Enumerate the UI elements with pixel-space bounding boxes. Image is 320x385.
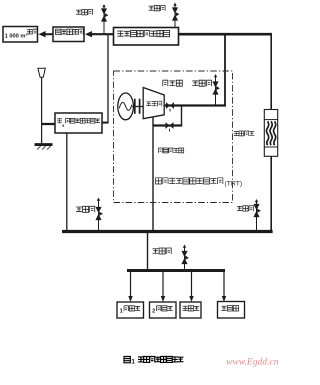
TRT system dashed boundary bbox=[114, 71, 233, 203]
box sintering machine bbox=[218, 302, 245, 319]
flare tip bbox=[38, 68, 45, 77]
svg-text:2: 2 bbox=[152, 309, 155, 315]
safety valve V1 on wire bbox=[103, 6, 105, 34]
safety valve V6 on distribution header bbox=[184, 247, 186, 271]
svg-text:1: 1 bbox=[131, 358, 135, 365]
wire release box down to header bbox=[66, 133, 68, 232]
label anquanfa V1 bbox=[76, 10, 81, 14]
generator G bbox=[118, 93, 134, 120]
wire branch to TRT bbox=[224, 34, 226, 105]
wire arrow into gravity collector bbox=[92, 33, 114, 35]
wire consumer drop 3 bbox=[191, 271, 193, 298]
caption figure 1 bbox=[124, 357, 130, 363]
wire low pressure header bbox=[62, 230, 273, 233]
box boiler 1 bbox=[117, 302, 144, 318]
wire pole to release box bbox=[42, 123, 55, 125]
label anquanfa V2 bbox=[149, 6, 154, 10]
safety valve V4 on header bbox=[98, 200, 100, 232]
svg-text:www.Egdd.cn: www.Egdd.cn bbox=[226, 357, 279, 368]
label anquanfa V4 bbox=[76, 207, 82, 212]
svg-text:(TRT): (TRT) bbox=[225, 180, 243, 187]
wire turbine inlet pipe bbox=[165, 104, 227, 106]
wire arrow into furnace bbox=[45, 33, 53, 35]
svg-text:1: 1 bbox=[120, 309, 123, 315]
flare stack pole bbox=[41, 77, 43, 143]
label kuaiqiefa bbox=[163, 80, 168, 86]
label anquanfa V3 bbox=[192, 81, 198, 86]
wire bypass down leg bbox=[181, 106, 183, 126]
wire turbine outlet down bbox=[152, 117, 154, 232]
wire from top tee down to release box bbox=[107, 34, 109, 122]
turbine (expander) bbox=[143, 88, 164, 119]
safety valve V2 on bag-filter box bbox=[174, 5, 176, 28]
wire consumer drop 4 bbox=[223, 271, 225, 298]
bypass quick shut valve bbox=[166, 122, 170, 129]
label anquanfa V6 bbox=[153, 249, 159, 254]
ground base bbox=[35, 143, 53, 146]
box raw/clean gas release system bbox=[55, 113, 102, 133]
safety valve V5 on header bbox=[256, 201, 258, 232]
wire consumer drop 1 bbox=[130, 271, 132, 298]
box gravity dust collector bbox=[53, 27, 84, 42]
safety valve V3 on inlet pipe bbox=[215, 76, 217, 105]
label TRT system bbox=[156, 178, 162, 184]
wire right down to reducer bbox=[270, 33, 272, 110]
wire main top right bbox=[179, 33, 272, 36]
label jianyafazu bbox=[234, 131, 239, 135]
shaft coupling bbox=[132, 106, 143, 108]
wire bypass horizontal bbox=[153, 124, 182, 126]
pressure reducing valve group bbox=[264, 110, 277, 157]
wire distribution header bbox=[127, 269, 225, 272]
box dry bag dust removal system bbox=[114, 28, 179, 46]
label anquanfa V5 bbox=[237, 206, 242, 210]
box hot blast stove bbox=[180, 302, 201, 318]
svg-text:1 000 m³: 1 000 m³ bbox=[5, 33, 28, 40]
wire reducer to header bbox=[270, 156, 272, 231]
wire header drop bbox=[147, 232, 149, 271]
label pangtong kuaiqiefa bbox=[158, 148, 162, 153]
box furnace 1000m3 bbox=[3, 27, 38, 43]
quick shut valve on inlet bbox=[166, 102, 170, 109]
wire consumer drop 2 bbox=[162, 271, 164, 298]
box boiler 2 bbox=[150, 302, 177, 318]
